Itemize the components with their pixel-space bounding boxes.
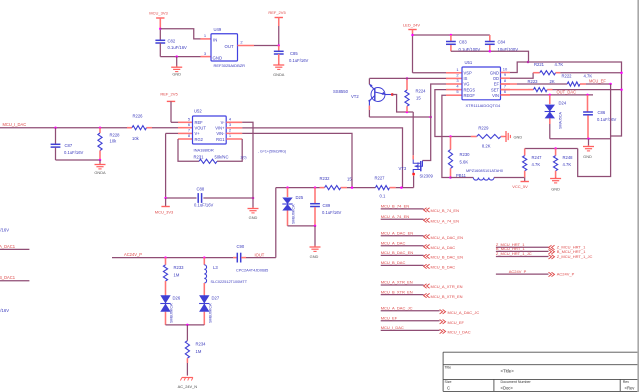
node junction C86 (586, 94, 589, 97)
svg-text:4.7K: 4.7K (563, 162, 572, 167)
svg-text:VIN-: VIN- (216, 131, 225, 136)
svg-text:MCU_B_DAC_EN: MCU_B_DAC_EN (381, 250, 414, 255)
svg-text:GND: GND (172, 72, 181, 77)
svg-text:GND: GND (514, 135, 523, 140)
wire VT2 emitter to IS row (368, 78, 370, 84)
svg-text:D25: D25 (296, 195, 304, 200)
sheet border (637, 0, 639, 392)
svg-text:OUT: OUT (225, 44, 234, 49)
svg-text:EF: EF (494, 82, 500, 87)
svg-text:MCU_A_74_EN: MCU_A_74_EN (431, 219, 460, 224)
svg-text:R247: R247 (532, 155, 543, 160)
node junction MCU_EF drop (609, 83, 612, 86)
node junction VIN- net (351, 186, 354, 189)
node junction gnd tee (527, 61, 530, 64)
capacitor C85 (274, 46, 309, 65)
wire REGS row to R229 (451, 136, 471, 138)
wire IOUT to riser (246, 257, 276, 259)
svg-text:R228: R228 (110, 133, 121, 138)
svg-text:MCU_A_DAC_JC: MCU_A_DAC_JC (448, 310, 480, 315)
node junction C84 bottom (489, 50, 492, 53)
note gain equation (258, 150, 286, 154)
node VT2 collector pin (391, 93, 394, 96)
svg-text:MCU_I_DAC: MCU_I_DAC (381, 325, 404, 330)
svg-text:0.1uF/16V: 0.1uF/16V (194, 203, 214, 208)
svg-text:MCU_B_DAC: MCU_B_DAC (431, 265, 456, 270)
port MCU_B_DAC_EN (381, 250, 463, 260)
svg-text:C90: C90 (237, 244, 245, 249)
wire R232 row (276, 187, 320, 189)
ground GND under R248 (550, 177, 561, 192)
svg-text:XTR111AIDGQTG4: XTR111AIDGQTG4 (466, 103, 502, 108)
wire U52 V+ to 3V3 (166, 133, 178, 198)
svg-text:SMBJ6KCA: SMBJ6KCA (292, 204, 296, 224)
wire pin3 gnd net U49 (160, 56, 200, 58)
port MCU_EF (381, 315, 465, 325)
svg-text:MCU_I_DAC: MCU_I_DAC (3, 122, 27, 127)
resistor R226 (127, 114, 152, 142)
net label MCU_B_DAC1 (0, 275, 16, 280)
net label MCU_I_DAC (3, 122, 27, 127)
node junction R234 top (186, 324, 189, 327)
transistor VT3 SI2309 (399, 155, 434, 178)
resistor R233 (163, 258, 184, 296)
port MCU_B_XTR_EN (381, 289, 463, 299)
svg-text:50k/NC: 50k/NC (215, 155, 229, 160)
svg-text:GND: GND (583, 154, 592, 159)
value fragment 0.1uF/16V (left bottom) (0, 308, 9, 313)
node junction L3 (203, 256, 206, 259)
port MCU_A_DAC_JC (381, 305, 480, 315)
resistor R230 (448, 137, 470, 178)
diode D24 TVS (545, 95, 567, 139)
svg-text:U51: U51 (465, 60, 473, 65)
node junction R228 bottom (99, 159, 102, 162)
port Z_MCU_HRT_1 (right) (496, 242, 586, 250)
svg-text:10k: 10k (132, 136, 140, 141)
capacitor C88 (166, 187, 253, 208)
node junction R233 (164, 256, 167, 259)
svg-text:VSP: VSP (464, 71, 472, 76)
power VCC_5V down (512, 178, 529, 190)
ground GND under C89 (310, 226, 321, 259)
svg-text:GNDA: GNDA (273, 72, 285, 77)
svg-text:R232: R232 (320, 176, 331, 181)
svg-text:Size: Size (445, 380, 452, 384)
node junction R221/gnd rail (620, 71, 623, 74)
svg-text:GND: GND (249, 215, 258, 220)
svg-text:0.1uF/16V: 0.1uF/16V (289, 58, 309, 63)
svg-text:R222: R222 (562, 74, 573, 79)
svg-text:MCU_3V3: MCU_3V3 (155, 210, 174, 215)
svg-text:MCU_3V3: MCU_3V3 (149, 11, 168, 16)
svg-text:0.1uF/16V: 0.1uF/16V (64, 150, 84, 155)
svg-text:REF3025AIDBZR: REF3025AIDBZR (214, 63, 246, 68)
resistor R223 (501, 79, 622, 92)
wire D26/D27 bottoms (166, 324, 205, 326)
svg-text:0.1uF/16V: 0.1uF/16V (0, 308, 9, 313)
wire R226 to U52 pin6 (152, 127, 178, 129)
node junction GND drop (175, 55, 178, 58)
port MCU_B_DAC (381, 260, 456, 270)
diode D26 TVS (160, 295, 181, 325)
svg-text:MCU_A_DAC_EN: MCU_A_DAC_EN (431, 235, 464, 240)
svg-text:OUT_DAC: OUT_DAC (557, 89, 577, 94)
svg-text:SMBJ6KCA: SMBJ6KCA (170, 303, 174, 323)
title block frame (443, 352, 637, 391)
svg-text:0.1uF/16V: 0.1uF/16V (168, 45, 188, 50)
svg-text:REF_2V5: REF_2V5 (268, 10, 286, 15)
node junction REF_2V5/C85 (278, 44, 281, 47)
wire gnd rail right (528, 62, 622, 136)
node junction gnd drop (314, 225, 317, 228)
svg-text:MCU_A_XTR_EN: MCU_A_XTR_EN (381, 280, 413, 285)
wire VT2 base row (369, 116, 430, 118)
svg-text:R233: R233 (174, 265, 185, 270)
svg-text:D27: D27 (212, 296, 220, 301)
svg-text:10k: 10k (110, 139, 118, 144)
resistor R224 (405, 78, 426, 112)
svg-text:MCU_EF: MCU_EF (589, 78, 606, 83)
wire MCU_I_DAC row (0, 127, 132, 129)
ground GNDA under R228 (94, 160, 106, 175)
port AC24V_P (right) (496, 269, 575, 277)
svg-text:VCC_5V: VCC_5V (512, 184, 528, 189)
svg-text:V+: V+ (195, 131, 201, 136)
svg-text:MCU_A_DAC1: MCU_A_DAC1 (0, 244, 16, 249)
svg-text:4: 4 (229, 117, 232, 122)
pin stubs U51 right (501, 67, 511, 95)
svg-text:C88: C88 (197, 187, 205, 192)
capacitor C90 (233, 244, 268, 273)
op-amp U52 INA188 box (193, 109, 227, 153)
svg-text:VT2: VT2 (351, 94, 359, 99)
wire R227 to VT3 (396, 187, 414, 189)
svg-text:C: C (447, 386, 450, 391)
svg-text:U52: U52 (194, 109, 202, 114)
wire R247/R248 rail (525, 148, 578, 150)
node junction D25 (286, 186, 289, 189)
node VT3 drain pin (412, 173, 415, 176)
pin 3 stub U49 (201, 51, 212, 57)
net label OUT_DAC (557, 89, 577, 94)
svg-text:1: 1 (204, 33, 207, 38)
value fragment 0.1uF/16V (left top) (0, 228, 9, 233)
wire VIN row (501, 94, 594, 96)
svg-text:R231: R231 (194, 155, 205, 160)
svg-text:MCU_B_DAC: MCU_B_DAC (381, 260, 406, 265)
port MCU_A_DAC (381, 240, 456, 250)
ground GND under C82 (171, 57, 182, 77)
inductor PB11 ferrite (451, 169, 525, 180)
svg-text:Z_MCU_HRT_1_JC: Z_MCU_HRT_1_JC (496, 251, 532, 256)
svg-text:R224: R224 (416, 89, 427, 94)
inductor L3 (204, 258, 247, 296)
resistor R227 (375, 176, 396, 199)
wire cap top rail (413, 34, 490, 36)
svg-text:MCU_B_DAC_EN: MCU_B_DAC_EN (431, 255, 464, 260)
svg-text:SMAJ5CA: SMAJ5CA (559, 111, 563, 129)
capacitor C89 (310, 188, 341, 226)
wire cap bottom rail (451, 51, 529, 62)
node junction R230 top (449, 135, 452, 138)
capacitor C83 (446, 35, 480, 52)
svg-text:MPZ1608S101ATAH0: MPZ1608S101ATAH0 (466, 169, 503, 173)
port Z_MCU_HRT_1_JC (right) (496, 251, 593, 259)
wire VG net (423, 84, 447, 161)
svg-text:R248: R248 (563, 155, 574, 160)
svg-text:C84: C84 (498, 40, 506, 45)
svg-text:2: 2 (240, 40, 243, 45)
svg-text:REGF: REGF (464, 93, 476, 98)
wire D25/C89 bottoms (288, 225, 316, 227)
wire collector to VT3 source (412, 112, 414, 155)
ground GND under C86 (583, 139, 594, 159)
svg-text:D24: D24 (559, 101, 567, 106)
wire AC24V_P row (112, 257, 233, 259)
svg-text:REF_2V5: REF_2V5 (160, 92, 178, 97)
wire pin2 to REF_2V5 (254, 45, 279, 47)
diode D25 TVS (282, 188, 304, 226)
svg-text:15: 15 (416, 96, 421, 101)
wire VT2 collector net (392, 95, 413, 113)
svg-text:SI2309: SI2309 (420, 174, 434, 179)
node junction C88 left (164, 197, 167, 200)
pin stubs U51 left (446, 67, 462, 95)
wire VIN- net to R232 area (242, 133, 352, 187)
wire VSP pin1 (413, 72, 447, 74)
node junction C87 (54, 126, 57, 129)
svg-text:GND: GND (551, 187, 560, 192)
wire MCU_A_DAC1 stub (0, 248, 29, 250)
svg-text:GND: GND (310, 254, 319, 259)
node junction C83 top (450, 34, 453, 37)
svg-text:3: 3 (204, 51, 207, 56)
diode D27 TVS (199, 295, 220, 325)
power MCU_3V3 (top left) (149, 11, 168, 29)
transistor VT2 SS8550 (333, 84, 392, 106)
svg-text:Rev: Rev (623, 380, 630, 384)
port MCU_B_74_EN (381, 204, 459, 214)
port MCU_I_DAC (381, 325, 471, 335)
svg-text:C82: C82 (168, 39, 176, 44)
port B_MCU_HRT_1 (right) (496, 246, 586, 254)
svg-text:Title: Title (445, 365, 452, 369)
svg-text:C86: C86 (598, 110, 606, 115)
svg-text:MCU_A_XTR_EN: MCU_A_XTR_EN (431, 284, 463, 289)
node junction R224 bottom (406, 111, 409, 114)
svg-text:AC24V_P: AC24V_P (509, 269, 527, 274)
svg-text:CPC2A4T4JD0685: CPC2A4T4JD0685 (236, 269, 268, 273)
svg-text:MCU_A_DAC: MCU_A_DAC (431, 245, 456, 250)
svg-text:C85: C85 (290, 51, 298, 56)
wire pin1 net U49 (160, 29, 200, 39)
svg-text:1M: 1M (174, 273, 180, 278)
svg-text:INA188IDR: INA188IDR (194, 148, 214, 153)
capacitor C82 (155, 39, 187, 57)
resistor R234 (185, 325, 206, 376)
svg-text:AC24V_P: AC24V_P (557, 272, 575, 277)
svg-text:1M: 1M (196, 349, 202, 354)
svg-text:C87: C87 (65, 143, 73, 148)
wire D24/C86 gnd rail (550, 138, 611, 140)
pin 2 stub U49 (238, 40, 255, 46)
svg-text:IOUT: IOUT (255, 253, 265, 258)
ground GND right of R229 (505, 131, 523, 142)
svg-text:R229: R229 (478, 126, 489, 131)
svg-text:Z_MCU_HRT_1_JC: Z_MCU_HRT_1_JC (557, 254, 593, 259)
node junction SET/gnd rail (620, 88, 623, 91)
svg-text:D26: D26 (173, 296, 181, 301)
node junction VG/base (429, 116, 432, 119)
wire IS row (369, 77, 446, 79)
svg-text:R223: R223 (528, 79, 539, 84)
svg-text:MCU_B_74_EN: MCU_B_74_EN (431, 208, 460, 213)
op-amp U51 XTR111 box (462, 60, 501, 108)
resistor R231 gain loop (178, 139, 247, 163)
wire VT2 base lead down (368, 106, 370, 117)
wire C87 bottom to R228 bottom (56, 159, 101, 161)
svg-text:, G=1+(50kΩ/RG): , G=1+(50kΩ/RG) (258, 150, 286, 154)
port MCU_A_74_EN (381, 214, 459, 224)
svg-text:<Doc>: <Doc> (501, 386, 514, 391)
svg-text:0.1uF/16V: 0.1uF/16V (322, 210, 342, 215)
svg-text:U49: U49 (214, 27, 222, 32)
pin 1 stub U49 (201, 33, 212, 39)
net label MCU_EF (589, 78, 606, 83)
svg-text:C89: C89 (323, 203, 331, 208)
svg-text:MCU_EF: MCU_EF (381, 315, 398, 320)
svg-text:4.7K: 4.7K (555, 62, 564, 67)
svg-text:GNDA: GNDA (94, 170, 106, 175)
pin stubs U52 left (178, 117, 193, 140)
resistor R247 (523, 149, 543, 178)
svg-text:MCU_EF: MCU_EF (448, 320, 465, 325)
resistor R232 (320, 176, 353, 190)
svg-text:<Title>: <Title> (501, 369, 515, 374)
svg-text:SLC022512T100MTT: SLC022512T100MTT (211, 280, 248, 284)
node junction C88 right (252, 197, 255, 200)
resistor R228 (98, 128, 120, 160)
svg-text:R230: R230 (460, 152, 471, 157)
svg-text:RG2: RG2 (195, 137, 204, 142)
svg-text:C83: C83 (459, 40, 467, 45)
svg-text:MCU_B_DAC1: MCU_B_DAC1 (0, 275, 16, 280)
svg-text:0.1uF/16V: 0.1uF/16V (0, 228, 9, 233)
svg-text:VT3: VT3 (399, 166, 407, 171)
svg-text:SS8550: SS8550 (333, 89, 349, 94)
svg-text:R234: R234 (196, 342, 207, 347)
wire VIN+ net to R227 area (242, 128, 402, 188)
pin stubs U52 right (226, 117, 242, 140)
port MCU_A_XTR_EN (381, 280, 463, 290)
node junction R230 bottom (449, 176, 452, 179)
resistor R222 (501, 74, 611, 87)
svg-text:AC_24V_N: AC_24V_N (178, 384, 198, 389)
svg-text:VIN+: VIN+ (215, 126, 225, 131)
svg-text:15: 15 (347, 177, 352, 182)
power MCU_3V3 down (C88) (155, 198, 174, 215)
svg-text:R227: R227 (375, 176, 386, 181)
svg-text:5.6K: 5.6K (460, 160, 469, 165)
svg-text:10: 10 (503, 67, 508, 72)
node junction R228 (99, 126, 102, 129)
power LED_24V (403, 23, 420, 73)
svg-text:MCU_B_XTR_EN: MCU_B_XTR_EN (381, 289, 413, 294)
svg-text:MCU_B_74_EN: MCU_B_74_EN (381, 204, 410, 209)
capacitor C87 (51, 128, 84, 160)
svg-text:R226: R226 (133, 114, 144, 119)
capacitor C86 (583, 95, 616, 139)
net label MCU_A_DAC1 (0, 244, 16, 249)
node junction R248 top (554, 147, 557, 150)
wire MCU_3V3 to C82 and GND (159, 29, 161, 41)
node junction C89 (314, 186, 317, 189)
svg-text:SMBJ6KCA: SMBJ6KCA (209, 303, 213, 323)
svg-text:RG1: RG1 (216, 137, 225, 142)
wire MCU_EF riser (578, 84, 611, 177)
power REF_2V5 (top) (268, 10, 286, 46)
wire REGS net (435, 90, 451, 137)
svg-text:MCU_A_DAC: MCU_A_DAC (381, 240, 406, 245)
wire VT3 drain riser (413, 174, 415, 188)
svg-text:PB11: PB11 (456, 173, 467, 178)
svg-text:VG: VG (464, 82, 470, 87)
svg-text:SET: SET (491, 87, 499, 92)
svg-text:0.1: 0.1 (380, 194, 386, 199)
node junction at MCU_3V3/pin1 branch (159, 28, 162, 31)
svg-text:MCU_A_DAC_EN: MCU_A_DAC_EN (381, 230, 414, 235)
svg-text:IS: IS (464, 76, 468, 81)
net label IOUT (255, 253, 265, 258)
svg-text:MCU_I_DAC: MCU_I_DAC (448, 330, 471, 335)
op-amp U49 REF3025 box (211, 27, 245, 68)
ground GND right of C88 (248, 198, 259, 220)
node junction R224 top (406, 77, 409, 80)
svg-text:OD: OD (493, 76, 499, 81)
ground AC_24V_N earth (178, 378, 198, 390)
svg-text:GND: GND (213, 56, 223, 61)
node junction LED rail (411, 34, 414, 37)
svg-text:8.2K: 8.2K (482, 144, 491, 149)
power REF_2V5 (U52) (160, 92, 178, 123)
net label AC24V_P (124, 252, 142, 257)
svg-text:MCU_A_DAC_JC: MCU_A_DAC_JC (381, 305, 413, 310)
svg-text:L3: L3 (213, 265, 218, 270)
capacitor C84 (485, 35, 518, 52)
ground GNDA under C85 (273, 64, 285, 78)
svg-text:2K: 2K (550, 79, 555, 84)
svg-text:MCU_A_74_EN: MCU_A_74_EN (381, 214, 410, 219)
svg-text:V-: V- (221, 120, 226, 125)
svg-text:VIN: VIN (492, 93, 499, 98)
svg-text:VOUT: VOUT (195, 126, 207, 131)
wire gnd jog to pin10 (510, 62, 528, 73)
port MCU_A_DAC_EN (381, 230, 463, 240)
svg-text:AC24V_P: AC24V_P (124, 252, 142, 257)
node junction VIN+ net (400, 186, 403, 189)
svg-text:IN: IN (213, 38, 217, 43)
resistor R221 (510, 62, 622, 78)
wire REGF net (442, 95, 451, 177)
svg-text:GND: GND (490, 71, 499, 76)
svg-text:MCU_B_XTR_EN: MCU_B_XTR_EN (431, 294, 463, 299)
wire R232-R227 (347, 187, 376, 189)
wire IOUT riser (275, 188, 277, 258)
svg-text:REF: REF (195, 120, 204, 125)
wire MCU_B_DAC1 stub (0, 280, 29, 282)
svg-text:R221: R221 (534, 62, 545, 67)
